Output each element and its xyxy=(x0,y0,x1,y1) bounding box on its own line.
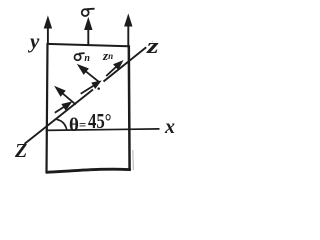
svg-text:n: n xyxy=(84,53,90,64)
